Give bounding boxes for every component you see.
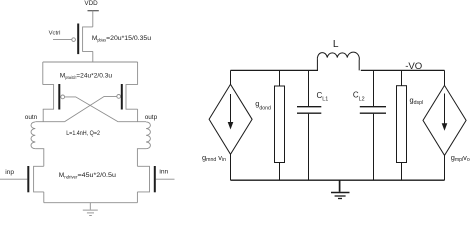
svg-text:-VO: -VO [405, 61, 422, 72]
svg-text:outp: outp [145, 114, 158, 121]
svg-text:outn: outn [25, 114, 38, 121]
svg-text:VDD: VDD [84, 0, 98, 7]
svg-text:inp: inp [5, 169, 14, 176]
svg-text:L=1.4nH, Q=2: L=1.4nH, Q=2 [66, 130, 100, 137]
svg-text:L: L [333, 39, 339, 50]
svg-text:inn: inn [159, 168, 168, 175]
svg-text:Vctrl: Vctrl [49, 31, 61, 37]
